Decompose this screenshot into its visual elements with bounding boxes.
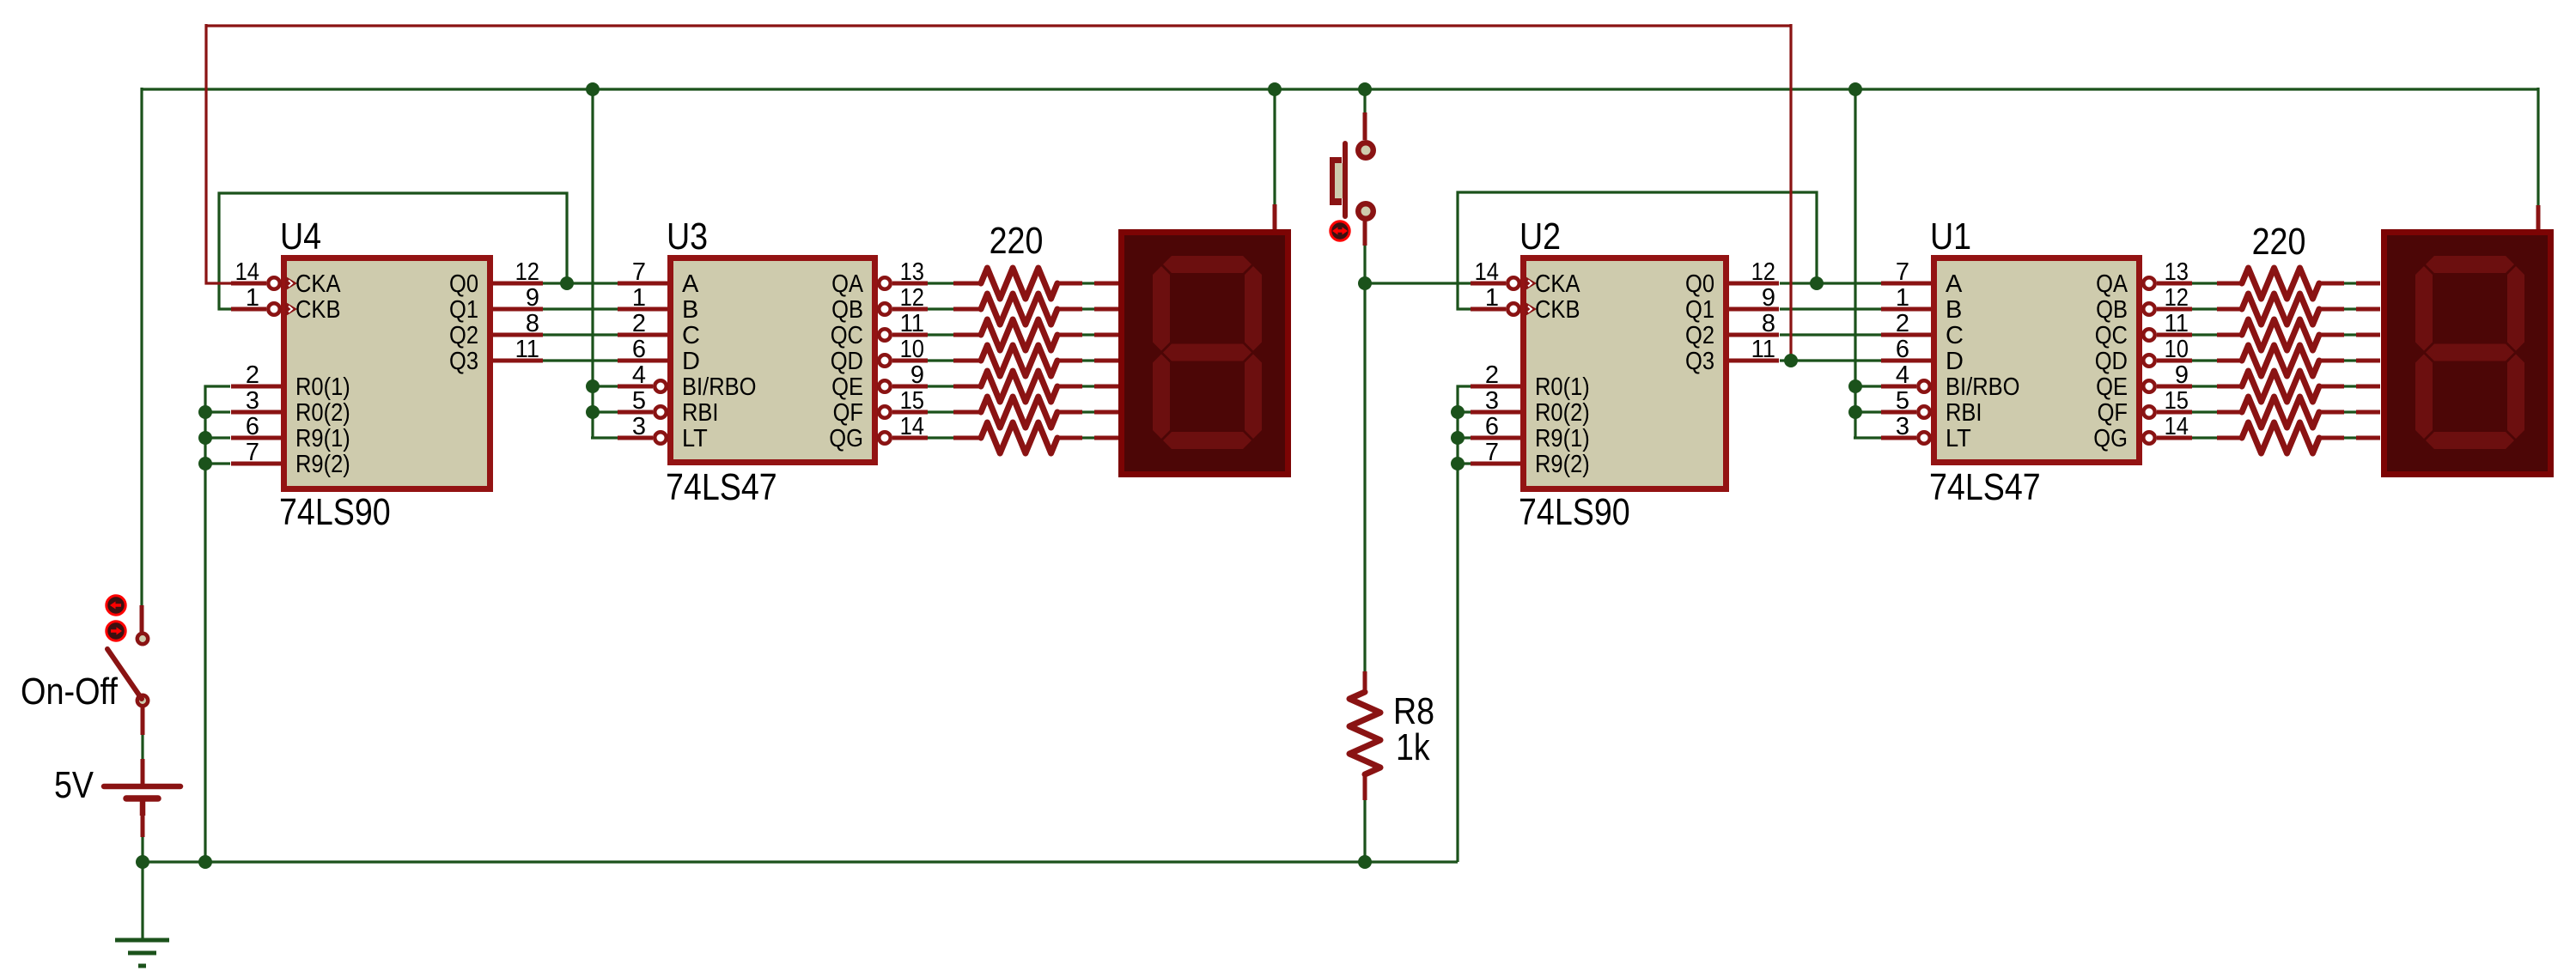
resistor 220 left lead y=360 <box>953 307 981 312</box>
wire U2 Q0 to CKB loop <box>1458 192 1817 309</box>
svg-text:QB: QB <box>2096 296 2128 324</box>
svg-text:CKA: CKA <box>295 270 341 298</box>
svg-text:220: 220 <box>990 220 1044 262</box>
wire U3 output to resistor y=510 <box>928 436 953 439</box>
7-segment display DS1 (right) segment d <box>2426 432 2514 449</box>
svg-text:D: D <box>1946 348 1964 375</box>
wire tap to U2 reset pin y=540 <box>1458 462 1472 464</box>
svg-text:QE: QE <box>2096 373 2128 401</box>
7-segment display DS2 (left) segment f <box>1153 266 1170 351</box>
U1 pin 9 QE (right) <box>2143 380 2155 392</box>
svg-text:QD: QD <box>831 348 863 375</box>
wire resistor to display y=450 <box>1082 385 1094 387</box>
wire clock bus top y=30 (red) <box>206 24 1791 27</box>
wire U1 output to resistor y=450 <box>2192 385 2217 387</box>
svg-text:7: 7 <box>1896 258 1909 286</box>
svg-text:2: 2 <box>1485 361 1499 389</box>
wire U1 output to resistor y=510 <box>2192 436 2217 439</box>
wire resistor to display y=390 <box>2344 333 2356 336</box>
wire U2 Q to U1 row y=390 <box>1780 333 1881 336</box>
junction U4 Q0 node <box>560 276 574 290</box>
svg-text:B: B <box>1946 296 1962 324</box>
svg-text:5V: 5V <box>54 764 94 806</box>
svg-text:CKA: CKA <box>1535 270 1580 298</box>
resistor R (220) right row y=330 <box>2319 282 2344 286</box>
junction U2 Q0 node <box>1810 276 1824 290</box>
svg-text:RBI: RBI <box>1946 399 1982 427</box>
wire U4 Q to U3 row y=360 <box>543 307 618 310</box>
svg-text:74LS90: 74LS90 <box>279 491 391 533</box>
push button top terminal <box>1355 140 1376 161</box>
wire resistor to display y=450 <box>2344 385 2356 387</box>
svg-text:QA: QA <box>2096 270 2128 298</box>
wire drop to display DS1 common <box>2536 88 2539 205</box>
U3 pin 14 QG (right) <box>879 432 891 444</box>
7-segment display DS2 (left) segment b <box>1245 266 1262 351</box>
svg-text:BI/RBO: BI/RBO <box>1946 373 2020 401</box>
wire U2 Q to U1 row y=330 <box>1780 282 1881 284</box>
resistor R (220) left row y=390 <box>1057 333 1082 337</box>
U2 pin 6 R9(1) (left) <box>1471 436 1520 440</box>
resistor R8 1k <box>1363 671 1367 692</box>
wire resistor to display y=420 <box>1082 359 1094 361</box>
wire resistor to display y=330 <box>1082 282 1094 284</box>
svg-text:8: 8 <box>526 310 539 337</box>
U3 pin 5 RBI (left) <box>618 410 653 415</box>
wire ground rail y=1004 <box>143 860 1458 863</box>
svg-text:12: 12 <box>2165 284 2189 312</box>
junction U2 Q3 / clock bus <box>1784 354 1798 367</box>
svg-text:11: 11 <box>515 336 539 363</box>
U4 pin 6 R9(1) (left) <box>231 436 281 440</box>
svg-text:CKB: CKB <box>1535 296 1580 324</box>
battery positive plate <box>104 784 180 790</box>
U2 pin 3 R0(2) (left) <box>1471 410 1520 415</box>
resistor 220 left lead y=420 <box>953 359 981 363</box>
svg-text:R9(1): R9(1) <box>1535 425 1590 452</box>
resistor R (220) right row y=420 <box>2319 359 2344 363</box>
ground symbol <box>115 938 169 943</box>
wire U2 Q to U1 row y=420 <box>1780 359 1881 361</box>
U4 pin 1 CKB (left) <box>231 307 266 312</box>
IC U1 74LS47 body <box>1934 258 2140 463</box>
svg-text:3: 3 <box>246 387 259 415</box>
svg-text:74LS90: 74LS90 <box>1519 491 1630 533</box>
resistor 220 left lead y=390 <box>953 333 981 337</box>
U2 pin 8 Q2 (right) <box>1729 333 1779 337</box>
svg-text:4: 4 <box>1896 361 1909 389</box>
7-segment display DS1 (right) segment b <box>2507 266 2524 351</box>
wire U3 output to resistor y=450 <box>928 385 953 387</box>
svg-text:Q0: Q0 <box>1685 270 1714 298</box>
resistor R (220) right row y=480 <box>2319 410 2344 415</box>
svg-text:6: 6 <box>632 336 646 363</box>
svg-text:7: 7 <box>1485 439 1499 466</box>
U4 pin 11 Q3 (right) <box>493 359 543 363</box>
wire VCC drop to U1 BI/RBO/RBI/LT x=2160 <box>1854 89 1856 438</box>
svg-text:9: 9 <box>910 361 924 389</box>
battery negative plate <box>126 795 158 802</box>
wire tap to U2 reset pin y=480 <box>1458 410 1472 413</box>
U2 pin 12 Q0 (right) <box>1729 282 1779 286</box>
svg-text:14: 14 <box>900 413 924 440</box>
switch bottom contact <box>137 695 148 706</box>
wire U2 reset pins vertical x=1697 <box>1458 386 1472 862</box>
svg-text:15: 15 <box>900 387 924 415</box>
svg-text:1k: 1k <box>1396 726 1431 768</box>
svg-text:74LS47: 74LS47 <box>1929 466 2041 508</box>
wire tap to U2 reset pin y=510 <box>1458 436 1472 439</box>
wire resistor to display y=510 <box>2344 436 2356 439</box>
svg-text:U2: U2 <box>1519 215 1561 258</box>
wire tap to U3 RBI <box>593 410 618 413</box>
svg-text:3: 3 <box>632 413 646 440</box>
svg-text:Q1: Q1 <box>1685 296 1714 324</box>
U2 pin 9 Q1 (right) <box>1729 307 1779 312</box>
U3 pin 2 C (left) <box>618 333 667 337</box>
U1 pin 15 QF (right) <box>2143 406 2155 418</box>
wire drop to display DS2 common <box>1273 89 1276 204</box>
svg-text:R0(1): R0(1) <box>295 373 350 401</box>
junction U2 R9(1) <box>1451 431 1465 445</box>
svg-text:R9(2): R9(2) <box>1535 451 1590 478</box>
svg-text:2: 2 <box>246 361 259 389</box>
svg-text:Q0: Q0 <box>449 270 478 298</box>
resistor R (220) left row y=480 <box>1057 410 1082 415</box>
wire tap to U1 LT <box>1854 436 1881 439</box>
pin stub display DS2 y=450 <box>1094 385 1118 389</box>
svg-text:3: 3 <box>1485 387 1499 415</box>
7-segment display DS2 (left) segment d <box>1163 432 1251 449</box>
svg-text:Q1: Q1 <box>449 296 478 324</box>
U1 pin 10 QD (right) <box>2143 355 2155 367</box>
pin stub display DS2 y=360 <box>1094 307 1118 312</box>
junction U3 RBI <box>586 405 600 419</box>
svg-text:3: 3 <box>1896 413 1909 440</box>
U2 pin 1 CKB (left) <box>1471 307 1506 312</box>
svg-text:12: 12 <box>1751 258 1775 286</box>
junction VCC bus / DS2 drop <box>1268 82 1282 96</box>
wire resistor to display y=420 <box>2344 359 2356 361</box>
battery bottom stub <box>140 799 146 816</box>
svg-text:U3: U3 <box>667 215 708 258</box>
U3 pin 9 QE (right) <box>879 380 891 392</box>
resistor 220 right lead y=390 <box>2217 333 2242 337</box>
pin stub display DS2 y=390 <box>1094 333 1118 337</box>
resistor R (220) right row y=360 <box>2319 307 2344 312</box>
U4 pin 2 R0(1) (left) <box>231 385 281 389</box>
svg-text:4: 4 <box>632 361 646 389</box>
junction VCC bus / U1 control drop <box>1848 82 1862 96</box>
svg-text:Q2: Q2 <box>1685 322 1714 349</box>
svg-text:R0(2): R0(2) <box>295 399 350 427</box>
svg-text:5: 5 <box>1896 387 1909 415</box>
svg-text:LT: LT <box>682 425 708 452</box>
wire U3 output to resistor y=420 <box>928 359 953 361</box>
svg-text:R0(2): R0(2) <box>1535 399 1590 427</box>
7-segment display DS2 (left) body <box>1122 233 1288 475</box>
U4 pin 12 Q0 (right) <box>493 282 543 286</box>
svg-text:2: 2 <box>1896 310 1909 337</box>
svg-text:6: 6 <box>1485 413 1499 440</box>
svg-text:74LS47: 74LS47 <box>666 466 777 508</box>
svg-text:14: 14 <box>2165 413 2189 440</box>
7-segment display DS1 (right) segment e <box>2415 355 2433 440</box>
svg-text:Q2: Q2 <box>449 322 478 349</box>
svg-text:CKB: CKB <box>295 296 341 324</box>
U1 pin 2 C (left) <box>1881 333 1931 337</box>
svg-text:QC: QC <box>831 322 863 349</box>
junction button / U2 CKA / R8 <box>1358 276 1372 290</box>
pin stub display DS2 y=420 <box>1094 359 1118 363</box>
svg-text:B: B <box>682 296 698 324</box>
svg-text:1: 1 <box>1896 284 1909 312</box>
U3 pin 11 QC (right) <box>879 329 891 341</box>
resistor 220 right lead y=360 <box>2217 307 2242 312</box>
pin stub display DS1 y=480 <box>2356 410 2380 415</box>
svg-text:On-Off: On-Off <box>21 671 119 713</box>
resistor 220 right lead y=510 <box>2217 436 2242 440</box>
svg-text:A: A <box>1946 270 1963 298</box>
svg-text:1: 1 <box>1485 284 1499 312</box>
wire node to U2 CKA <box>1365 282 1472 284</box>
svg-text:14: 14 <box>235 258 259 286</box>
wire resistor to display y=330 <box>2344 282 2356 284</box>
wire U4 Q to U3 row y=390 <box>543 333 618 336</box>
resistor R (220) left row y=360 <box>1057 307 1082 312</box>
wire button bottom to node <box>1363 246 1366 283</box>
resistor 220 right lead y=330 <box>2217 282 2242 286</box>
wire resistor to display y=510 <box>1082 436 1094 439</box>
svg-text:QG: QG <box>2093 425 2128 452</box>
junction VCC bus / button drop <box>1358 82 1372 96</box>
battery top stub <box>141 759 145 784</box>
pin stub display DS2 common <box>1273 204 1277 229</box>
resistor 220 right lead y=450 <box>2217 385 2242 389</box>
svg-text:6: 6 <box>1896 336 1909 363</box>
push button interactive indicator <box>1331 221 1349 240</box>
svg-text:RBI: RBI <box>682 399 719 427</box>
pin stub display DS2 y=330 <box>1094 282 1118 286</box>
resistor 220 left lead y=480 <box>953 410 981 415</box>
svg-text:C: C <box>682 322 700 349</box>
svg-text:9: 9 <box>526 284 539 312</box>
U2 pin 11 Q3 (right) <box>1729 359 1779 363</box>
wire U4 Q0 to CKB loop <box>219 193 567 309</box>
7-segment display DS2 (left) segment e <box>1153 355 1170 440</box>
pin stub display DS1 y=420 <box>2356 359 2380 363</box>
junction U2 R0(2) <box>1451 405 1465 419</box>
svg-text:14: 14 <box>1475 258 1499 286</box>
svg-text:U1: U1 <box>1930 215 1971 258</box>
svg-text:QA: QA <box>831 270 863 298</box>
svg-text:5: 5 <box>632 387 646 415</box>
svg-text:QC: QC <box>2095 322 2128 349</box>
svg-text:QB: QB <box>831 296 863 324</box>
wire red down to U2 Q3 node <box>1789 24 1792 361</box>
wire switch to battery <box>141 735 143 759</box>
U2 pin 7 R9(2) (left) <box>1471 462 1520 466</box>
wire U4 Q to U3 row y=420 <box>543 359 618 361</box>
wire tap to U4 reset pin y=510 <box>205 436 230 439</box>
resistor 220 right lead y=420 <box>2217 359 2242 363</box>
svg-text:BI/RBO: BI/RBO <box>682 373 757 401</box>
7-segment display DS2 (left) segment a <box>1163 256 1251 273</box>
U3 pin 10 QD (right) <box>879 355 891 367</box>
svg-text:C: C <box>1946 322 1964 349</box>
svg-text:13: 13 <box>2165 258 2189 286</box>
pin stub display DS2 y=480 <box>1094 410 1118 415</box>
svg-text:12: 12 <box>900 284 924 312</box>
wire resistor to display y=390 <box>1082 333 1094 336</box>
svg-text:7: 7 <box>246 439 259 466</box>
wire resistor to display y=480 <box>1082 410 1094 413</box>
junction reset vertical / ground rail <box>198 855 212 869</box>
U3 pin 6 D (left) <box>618 359 667 363</box>
resistor R (220) left row y=420 <box>1057 359 1082 363</box>
junction U1 RBI <box>1848 405 1862 419</box>
resistor 220 right lead y=480 <box>2217 410 2242 415</box>
wire resistor to display y=360 <box>1082 307 1094 310</box>
resistor R (220) left row y=450 <box>1057 385 1082 389</box>
junction U2 R9(2) <box>1451 457 1465 470</box>
junction VCC bus / U3 control drop <box>586 82 600 96</box>
wire U4 Q to U3 row y=330 <box>543 282 618 284</box>
junction U4 R9(2) <box>198 457 212 470</box>
U3 pin 7 A (left) <box>618 282 667 286</box>
wire drop to button top <box>1363 89 1366 112</box>
wire VCC drop to U3 BI/RBO/RBI/LT x=690 <box>591 89 594 438</box>
wire VCC bus horizontal y=104 <box>142 88 2538 90</box>
IC U3 74LS47 body <box>671 258 875 463</box>
svg-text:R9(1): R9(1) <box>295 425 350 452</box>
resistor R (220) left row y=510 <box>1057 436 1082 440</box>
pin stub display DS1 y=360 <box>2356 307 2380 312</box>
IC U2 74LS90 body <box>1524 258 1726 489</box>
pin stub display DS1 common <box>2536 205 2541 229</box>
svg-text:7: 7 <box>632 258 646 286</box>
wire U3 output to resistor y=480 <box>928 410 953 413</box>
wire tap to U3 LT <box>591 436 618 439</box>
7-segment display DS1 (right) segment f <box>2415 266 2433 351</box>
wire tap to U1 RBI <box>1855 410 1881 413</box>
U3 pin 1 B (left) <box>618 307 667 312</box>
svg-text:9: 9 <box>2175 361 2189 389</box>
U4 pin 14 CKA (left) <box>231 282 266 286</box>
junction U4 R9(1) <box>198 431 212 445</box>
push button bottom terminal <box>1355 201 1376 221</box>
U1 pin 5 RBI (left) <box>1881 410 1916 415</box>
wire tap to U4 reset pin y=480 <box>205 410 230 413</box>
junction U3 BI/RBO <box>586 379 600 393</box>
wire U1 output to resistor y=360 <box>2192 307 2217 310</box>
switch blade <box>107 649 142 699</box>
7-segment display DS1 (right) segment g <box>2426 344 2514 361</box>
svg-text:QG: QG <box>829 425 863 452</box>
switch bottom pin stub <box>141 706 145 735</box>
svg-text:12: 12 <box>515 258 539 286</box>
wire R8 to ground rail <box>1363 800 1366 862</box>
svg-text:D: D <box>682 348 700 375</box>
pin stub button top <box>1363 112 1367 140</box>
wire resistor to display y=360 <box>2344 307 2356 310</box>
junction U4 R0(2) <box>198 405 212 419</box>
resistor R (220) right row y=510 <box>2319 436 2344 440</box>
svg-text:QE: QE <box>831 373 863 401</box>
svg-text:15: 15 <box>2165 387 2189 415</box>
svg-text:QF: QF <box>833 399 863 427</box>
switch toggle indicator down <box>107 622 125 640</box>
resistor R (220) right row y=390 <box>2319 333 2344 337</box>
wire U3 output to resistor y=390 <box>928 333 953 336</box>
svg-text:10: 10 <box>2165 336 2189 363</box>
U1 pin 7 A (left) <box>1881 282 1931 286</box>
svg-text:R9(2): R9(2) <box>295 451 350 478</box>
U3 pin 4 BI/RBO (left) <box>618 385 653 389</box>
wire U1 output to resistor y=480 <box>2192 410 2217 413</box>
svg-text:13: 13 <box>900 258 924 286</box>
switch top pin stub <box>140 605 144 633</box>
U2 pin 2 R0(1) (left) <box>1471 385 1520 389</box>
switch toggle indicator up <box>107 596 125 615</box>
svg-text:U4: U4 <box>280 215 321 258</box>
pin stub display DS1 y=390 <box>2356 333 2380 337</box>
svg-text:11: 11 <box>2165 310 2189 337</box>
svg-text:220: 220 <box>2252 221 2306 263</box>
svg-text:Q3: Q3 <box>449 348 478 375</box>
pin stub display DS2 y=510 <box>1094 436 1118 440</box>
svg-text:1: 1 <box>632 284 646 312</box>
U3 pin 12 QB (right) <box>879 303 891 315</box>
switch top contact <box>137 634 148 644</box>
pin stub button bottom <box>1363 221 1367 246</box>
wire U3 output to resistor y=360 <box>928 307 953 310</box>
7-segment display DS2 (left) segment c <box>1245 355 1262 440</box>
U1 pin 13 QA (right) <box>2143 277 2155 289</box>
svg-text:QD: QD <box>2095 348 2128 375</box>
wire U2 Q to U1 row y=360 <box>1780 307 1881 310</box>
resistor 220 left lead y=330 <box>953 282 981 286</box>
7-segment display DS1 (right) body <box>2384 233 2551 475</box>
push button body <box>1330 157 1342 205</box>
svg-text:10: 10 <box>900 336 924 363</box>
svg-text:6: 6 <box>246 413 259 440</box>
svg-text:11: 11 <box>900 310 924 337</box>
junction R8 / ground rail <box>1358 855 1372 869</box>
U4 pin 3 R0(2) (left) <box>231 410 281 415</box>
svg-text:LT: LT <box>1946 425 1971 452</box>
pin stub display DS1 y=450 <box>2356 385 2380 389</box>
svg-text:9: 9 <box>1762 284 1775 312</box>
U4 pin 9 Q1 (right) <box>493 307 543 312</box>
U4 pin 7 R9(2) (left) <box>231 462 281 466</box>
svg-text:11: 11 <box>1751 336 1775 363</box>
U1 pin 12 QB (right) <box>2143 303 2155 315</box>
pin stub display DS1 y=330 <box>2356 282 2380 286</box>
7-segment display DS1 (right) segment c <box>2507 355 2524 440</box>
resistor 220 left lead y=450 <box>953 385 981 389</box>
wire tap to U1 BI/RBO <box>1855 385 1881 387</box>
wire rail to ground symbol <box>141 862 143 938</box>
svg-text:A: A <box>682 270 699 298</box>
wire red down to U4 CKA <box>206 24 234 283</box>
U2 pin 14 CKA (left) <box>1471 282 1506 286</box>
U1 pin 6 D (left) <box>1881 359 1931 363</box>
resistor 220 left lead y=510 <box>953 436 981 440</box>
U3 pin 13 QA (right) <box>879 277 891 289</box>
wire U1 output to resistor y=330 <box>2192 282 2217 284</box>
U1 pin 3 LT (left) <box>1881 436 1916 440</box>
